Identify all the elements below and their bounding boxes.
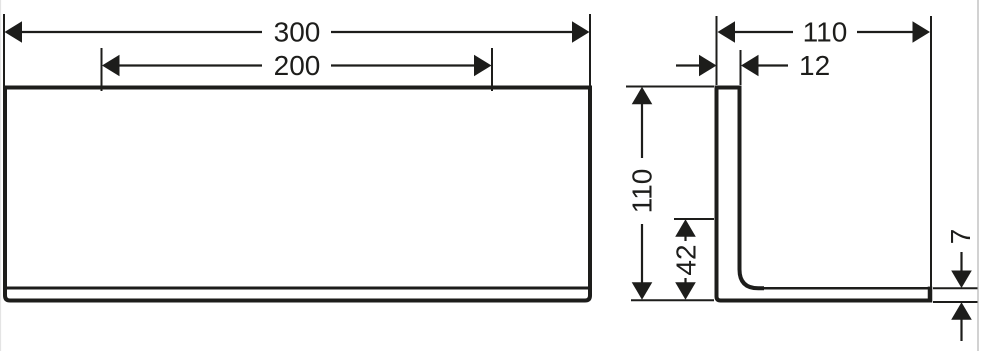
front view shelf outline bbox=[5, 88, 590, 301]
svg-text:42: 42 bbox=[671, 244, 702, 275]
dimension 110 top line bbox=[733, 31, 793, 33]
dimension 12 leader left line bbox=[676, 64, 700, 66]
right page border bbox=[977, 0, 979, 351]
svg-text:110: 110 bbox=[803, 17, 848, 48]
dimension 110 left bottom arrow bbox=[632, 282, 653, 300]
extension line left for top 110 and 12 bbox=[716, 16, 718, 85]
extension line top for 7 bbox=[933, 287, 978, 289]
dimension 200 right arrow bbox=[474, 55, 492, 77]
dimension 300 line bbox=[20, 31, 262, 33]
dimension 110 left top arrow bbox=[632, 87, 653, 105]
side view L-profile wall leg top cap bbox=[715, 86, 742, 90]
extension line bottom shared for left 110 and 42 bbox=[631, 299, 714, 301]
dimension 7 lower arrow pointing up bbox=[951, 302, 972, 320]
extension line right for 200 bbox=[491, 48, 493, 91]
dimension 12 leader right line bbox=[758, 64, 788, 66]
dimension 12 right arrow pointing left bbox=[741, 55, 759, 77]
side view shelf top thin line bbox=[762, 287, 929, 290]
extension line left for 300 bbox=[3, 14, 5, 86]
dimension 7 lower line bbox=[960, 319, 962, 341]
extension line right for 12 bbox=[740, 50, 742, 85]
extension line left for 200 bbox=[101, 48, 103, 91]
side view L-profile right edge with inner fillet bbox=[740, 86, 765, 289]
extension line top for 42 bbox=[674, 218, 714, 220]
dimension 110 top left arrow bbox=[718, 21, 736, 43]
dimension 300 left arrow bbox=[5, 21, 23, 43]
svg-text:300: 300 bbox=[274, 17, 321, 48]
svg-text:7: 7 bbox=[945, 229, 976, 245]
side view L-profile left edge and bottom edge bbox=[717, 86, 931, 301]
extension line top for left 110 bbox=[626, 86, 714, 88]
dimension 12 left arrow pointing right bbox=[699, 55, 717, 77]
extension line right for top 110 bbox=[930, 16, 932, 287]
dimension 110 top right arrow bbox=[913, 21, 931, 43]
left page border bbox=[0, 0, 2, 351]
svg-text:200: 200 bbox=[274, 50, 321, 81]
dimension 110 left line bbox=[641, 102, 643, 158]
dimension 42 bottom arrow bbox=[675, 282, 696, 300]
dimension 42 top arrow bbox=[675, 219, 696, 237]
side view shelf right end cap bbox=[928, 287, 933, 303]
svg-text:110: 110 bbox=[627, 169, 658, 214]
svg-text:12: 12 bbox=[799, 50, 830, 81]
dimension 42 line bbox=[684, 234, 686, 241]
extension line bottom for 7 bbox=[933, 301, 978, 303]
front view shelf inner edge line bbox=[7, 287, 588, 290]
dimension 200 line bbox=[119, 64, 262, 66]
dimension 7 upper arrow pointing down bbox=[951, 271, 972, 289]
extension line right for 300 bbox=[589, 14, 591, 86]
dimension 300 right arrow bbox=[572, 21, 590, 43]
dimension 7 upper line bbox=[960, 252, 962, 272]
dimension 200 left arrow bbox=[102, 55, 120, 77]
